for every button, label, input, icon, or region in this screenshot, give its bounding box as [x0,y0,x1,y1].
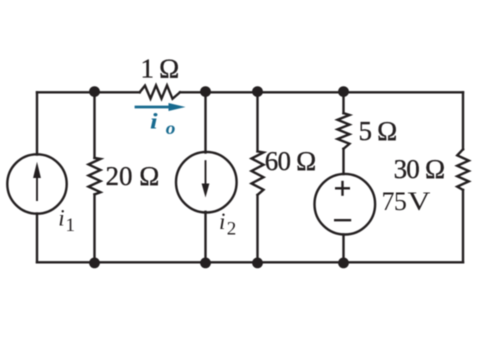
svg-text:V: V [408,187,431,216]
svg-text:75: 75 [382,187,407,216]
svg-text:5 Ω: 5 Ω [359,116,397,146]
svg-text:30 Ω: 30 Ω [394,154,445,184]
svg-text:2: 2 [227,219,237,240]
svg-text:20 Ω: 20 Ω [106,161,160,191]
svg-text:1 Ω: 1 Ω [141,54,179,84]
svg-text:i: i [150,110,158,134]
svg-text:60 Ω: 60 Ω [265,146,316,176]
svg-text:o: o [166,119,176,138]
svg-text:1: 1 [66,215,76,236]
svg-text:i: i [58,206,64,231]
svg-text:i: i [219,209,225,234]
